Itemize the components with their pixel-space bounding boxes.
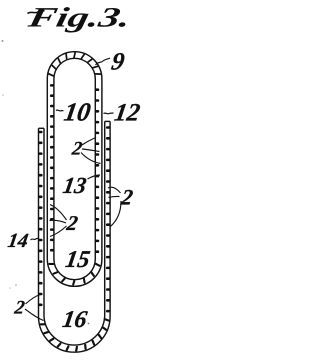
leader line to label 9 xyxy=(96,58,111,65)
svg-text:15: 15 xyxy=(64,246,92,273)
svg-text:12: 12 xyxy=(113,100,142,127)
leader line from label 13 to inner capsule right leg xyxy=(88,175,101,179)
svg-text:2: 2 xyxy=(119,185,135,210)
inner capsule tube, inner outline xyxy=(54,58,95,279)
outer U tube, inner outline xyxy=(44,121,105,345)
figure title leading swash xyxy=(28,11,45,14)
outer U left end cap xyxy=(39,127,45,129)
leader lines from upper label 2 to inner capsule right leg xyxy=(81,138,101,164)
leader line to label 10 xyxy=(56,109,64,112)
leader line to label 12 xyxy=(104,112,114,115)
outer U left leg stitch ticks xyxy=(39,132,41,305)
svg-text:2: 2 xyxy=(70,139,84,160)
svg-text:16: 16 xyxy=(61,306,90,333)
leader lines from bottom label 2 to outer U left leg xyxy=(25,295,44,321)
scan speck lower left pair xyxy=(9,287,11,289)
svg-text:10: 10 xyxy=(62,98,93,127)
inner capsule bottom bend stitch ticks xyxy=(49,264,99,285)
outer U right leg stitch ticks xyxy=(107,128,109,312)
svg-text:13: 13 xyxy=(61,173,88,199)
svg-text:2: 2 xyxy=(12,298,26,319)
scan speck near 16 xyxy=(88,323,90,325)
inner capsule right leg stitch ticks xyxy=(96,90,98,252)
outer U right end cap xyxy=(105,120,110,122)
scan speck top left xyxy=(2,40,4,42)
scan speck left xyxy=(2,94,4,96)
svg-text:Fig.3.: Fig.3. xyxy=(24,3,133,34)
inner capsule tube, outer outline xyxy=(47,52,102,287)
svg-text:14: 14 xyxy=(6,230,29,252)
leader line from label 14 to outer U left leg xyxy=(31,238,39,240)
svg-text:9: 9 xyxy=(110,49,127,76)
leader lines from right label 2 to outer U right leg xyxy=(108,187,121,227)
leader lines from middle label 2 to inner capsule left leg xyxy=(50,205,67,237)
svg-text:2: 2 xyxy=(64,211,80,235)
outer U tube, outer outline xyxy=(39,121,111,352)
outer U bottom bend stitch ticks xyxy=(41,319,109,351)
inner capsule left leg stitch ticks xyxy=(51,85,53,250)
inner capsule top arch stitch ticks xyxy=(49,53,101,76)
